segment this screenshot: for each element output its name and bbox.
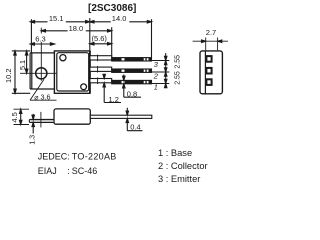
svg-text:JEDEC: JEDEC	[38, 152, 68, 162]
lead 3 tick	[97, 55, 99, 62]
dim 1.3 arrows	[32, 114, 34, 134]
front view: tab left double edge	[30, 53, 32, 89]
dim 5.1 line	[26, 51, 28, 73]
dim 6.3 line	[30, 43, 54, 45]
lead 3 thin part	[112, 58, 152, 61]
lead 3 black segments	[112, 58, 151, 61]
dim 4.5 line	[20, 109, 22, 124]
svg-text::: :	[67, 166, 70, 176]
svg-text:0.8: 0.8	[127, 90, 137, 99]
svg-text:EIAJ: EIAJ	[38, 166, 57, 176]
svg-text::: :	[67, 152, 70, 162]
front view: ejector circle top-left	[60, 55, 66, 61]
hole vertical centerline	[40, 28, 42, 81]
end view lead square 3	[206, 56, 211, 62]
dim 1.2 arrows and stem	[104, 75, 121, 103]
end view lead square 2	[206, 68, 211, 74]
ext line x=151.5 (lead tips)	[151, 19, 153, 57]
svg-text:1: 1	[154, 83, 158, 92]
dim 2.7 ticks	[206, 38, 218, 51]
svg-text:1 : Base: 1 : Base	[158, 148, 192, 158]
dim 18.0 arrows	[41, 30, 45, 33]
phi 3.6 leader	[30, 79, 57, 100]
lead 1 black segments	[112, 80, 151, 83]
lead 2 black segments	[112, 69, 151, 72]
svg-text:⌀ 3.6: ⌀ 3.6	[34, 92, 50, 101]
dim 2.55 arrows	[164, 56, 167, 60]
end view box	[200, 51, 222, 94]
tick shared at x=89.8	[89, 18, 91, 27]
dim 2.7 line	[193, 40, 228, 42]
svg-text:4.5: 4.5	[10, 112, 19, 122]
ext line left x=31.4	[30, 19, 32, 53]
front view: tab bottom edge	[30, 88, 54, 90]
dim (5.6) arrows	[90, 43, 94, 46]
svg-text:(5.6): (5.6)	[92, 34, 108, 43]
front view: body right edge emphasis	[89, 51, 91, 93]
dim 0.8 arrows and stem	[124, 75, 141, 98]
svg-text:14.0: 14.0	[112, 14, 127, 23]
lead 1 tick	[97, 77, 99, 84]
svg-text:2: 2	[153, 72, 158, 81]
dim 0.4 arrows and underline	[127, 108, 142, 131]
front view: ejector circle bottom-right	[81, 84, 87, 90]
svg-text:2 : Collector: 2 : Collector	[158, 161, 208, 171]
front view: tab top edge	[30, 52, 54, 54]
dim 5.1 arrows	[25, 51, 28, 55]
dim 6.3 arrows	[30, 43, 34, 46]
dim 10.2 line	[14, 51, 16, 93]
end view lead square 1	[206, 79, 211, 85]
svg-text:3: 3	[154, 60, 159, 69]
dim 10.2 ext lines	[12, 51, 30, 93]
side view hole centerline	[40, 112, 42, 128]
dim 2.7 arrows	[202, 40, 206, 43]
svg-text:0.4: 0.4	[130, 123, 140, 132]
dim 4.5 ext lines	[14, 109, 30, 124]
front view: molded face inner rect	[57, 53, 89, 91]
ext line x=111.7	[111, 27, 113, 57]
dim 10.2 arrows	[14, 51, 17, 55]
svg-text:1.2: 1.2	[109, 95, 119, 104]
front view: body outline	[54, 51, 90, 93]
svg-text:6.3: 6.3	[35, 35, 45, 44]
dim 18.0 line	[41, 30, 111, 32]
svg-text:2.55: 2.55	[175, 55, 182, 69]
lead 1 thin part	[112, 80, 152, 83]
svg-text:5.1: 5.1	[18, 60, 27, 70]
lead 2 tick	[97, 66, 99, 73]
svg-text:2.7: 2.7	[206, 28, 216, 37]
mounting hole	[36, 68, 47, 79]
lead 1 wide part	[90, 79, 112, 83]
end view divider	[204, 51, 206, 94]
hole horizontal centerline	[20, 72, 56, 74]
lead leader lines	[152, 61, 170, 84]
lead 2 wide part	[90, 67, 112, 71]
dim 2.55 line	[165, 53, 167, 88]
svg-text:TO-220AB: TO-220AB	[72, 152, 117, 162]
svg-text:2.55: 2.55	[175, 71, 182, 85]
svg-text:1.3: 1.3	[27, 135, 36, 145]
lead 2 thin part	[112, 69, 152, 72]
side view tab inner shading	[31, 120, 54, 122]
side view tab	[29, 119, 54, 122]
svg-text:SC-46: SC-46	[72, 166, 98, 176]
side view lead	[90, 115, 152, 118]
dim 15.1 arrows	[30, 21, 34, 24]
dim (5.6) line	[90, 43, 112, 45]
dim 14.0 arrows	[90, 21, 94, 24]
svg-text:15.1: 15.1	[49, 14, 64, 23]
svg-text:3 : Emitter: 3 : Emitter	[158, 174, 200, 184]
dim 15.1 line	[32, 21, 90, 23]
svg-text:10.2: 10.2	[4, 68, 13, 83]
lead 3 wide part	[90, 56, 112, 60]
ext line x=89.8 package right edge up	[89, 27, 91, 51]
svg-text:[2SC3086]: [2SC3086]	[88, 3, 136, 14]
svg-text:18.0: 18.0	[69, 24, 84, 33]
side view body	[54, 109, 90, 124]
dim 14.0 line	[90, 21, 152, 23]
